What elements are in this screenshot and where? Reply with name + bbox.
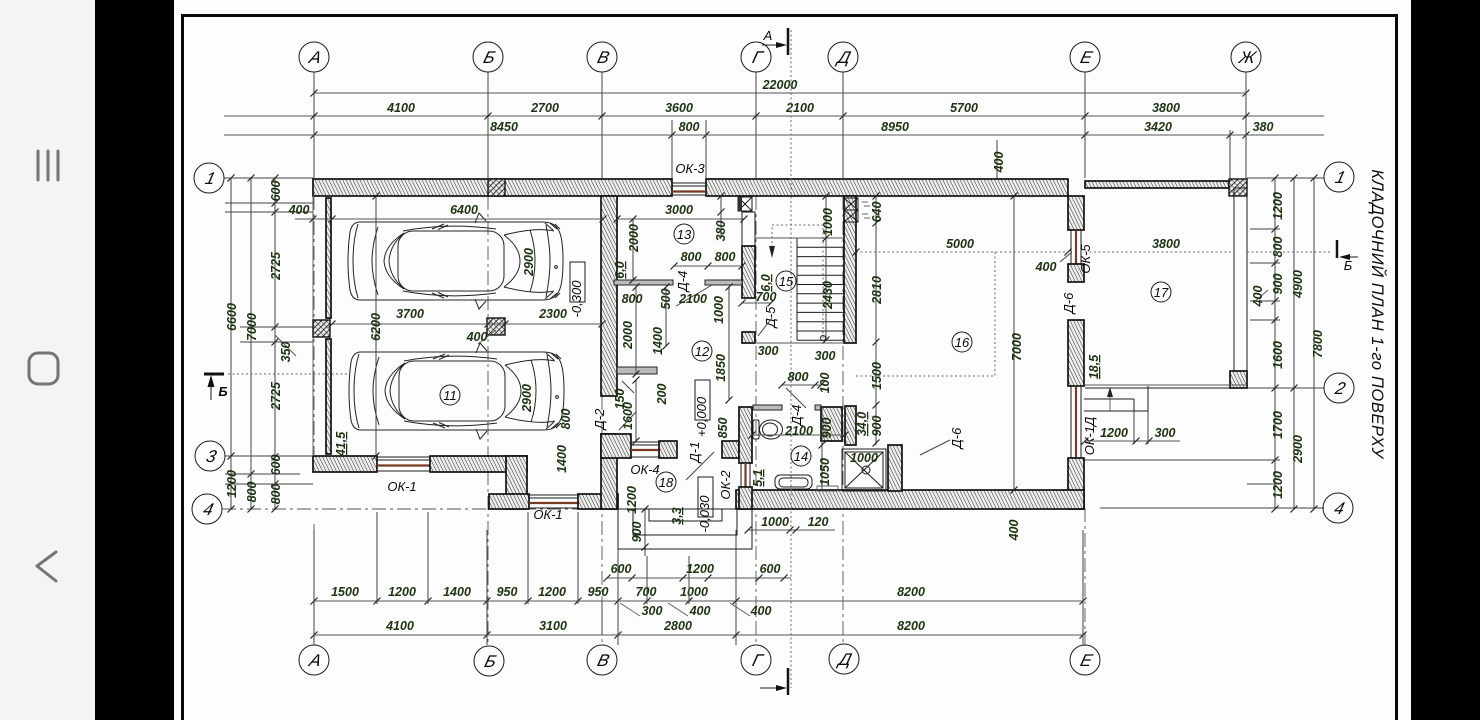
bottom dim row main	[314, 634, 1083, 636]
WC west wall lower	[739, 487, 752, 509]
car 2 in garage	[349, 343, 564, 439]
room 18 circle	[656, 472, 676, 492]
svg-text:2100: 2100	[678, 292, 707, 306]
right dim 400 leader	[1253, 290, 1268, 303]
axis circle B top	[473, 42, 503, 72]
top dim row 2	[224, 134, 1324, 136]
stair east wall	[844, 196, 856, 343]
section A mark bottom	[787, 668, 790, 695]
south wall row4 west	[489, 494, 529, 509]
window OK-1 row3	[377, 456, 430, 458]
svg-text:ОК-2: ОК-2	[718, 470, 733, 500]
svg-text:Д-1: Д-1	[687, 442, 702, 465]
svg-text:7800: 7800	[1311, 330, 1325, 358]
svg-text:800: 800	[679, 120, 700, 134]
garage south wall row3 west	[313, 456, 377, 472]
svg-text:А: А	[763, 28, 773, 43]
axis circle 2 right	[1324, 373, 1354, 403]
svg-text:3700: 3700	[396, 307, 424, 321]
bottom leader dims 300/400/400	[620, 603, 640, 616]
svg-text:6,0: 6,0	[613, 261, 627, 278]
axis circle B bottom	[474, 646, 504, 676]
top extension lines	[313, 88, 315, 111]
svg-text:Б: Б	[1344, 258, 1353, 273]
axis circle 1 right	[1324, 162, 1354, 192]
svg-text:1850: 1850	[714, 354, 728, 382]
elevation box +0.000 room12	[695, 380, 710, 420]
svg-text:Д-2: Д-2	[592, 408, 607, 431]
WC west wall upper	[739, 407, 752, 463]
svg-text:22000: 22000	[762, 78, 798, 92]
svg-text:ОК-5: ОК-5	[1078, 244, 1093, 274]
svg-text:3800: 3800	[1152, 101, 1180, 115]
bottom porch dim row 600/1200/600	[607, 577, 791, 579]
elevation box -0.030	[698, 477, 713, 517]
svg-text:120: 120	[808, 515, 829, 529]
svg-text:300: 300	[1155, 426, 1176, 440]
north wall west segment	[313, 179, 672, 196]
window OK-5 in E wall	[1070, 230, 1072, 264]
stair dim 700 D-5 300	[742, 302, 771, 304]
svg-text:4900: 4900	[1291, 270, 1305, 299]
stair dims 1000 2430	[825, 196, 827, 340]
nav sidebar	[0, 0, 95, 720]
kitchen zone dotted lines	[856, 252, 995, 376]
vent box room13	[738, 197, 752, 211]
window OK-2	[740, 463, 742, 487]
svg-text:1200: 1200	[388, 585, 416, 599]
ext steps dims 1200 300	[1085, 440, 1180, 442]
E wall segment 2	[1068, 264, 1084, 282]
axis A vertical	[313, 72, 315, 178]
svg-text:900: 900	[1271, 274, 1285, 295]
room13 dims 800 800	[674, 265, 742, 267]
svg-text:1200: 1200	[538, 585, 566, 599]
svg-text:-0,030: -0,030	[697, 495, 712, 533]
axis circle E top	[1070, 42, 1100, 72]
E wall segment 3	[1068, 320, 1084, 386]
svg-text:2100: 2100	[785, 101, 814, 115]
svg-text:18,5: 18,5	[1087, 354, 1101, 379]
svg-text:2000: 2000	[627, 224, 641, 253]
svg-text:КЛАДОЧНИЙ ПЛАН 1-го ПОВЕРХУ: КЛАДОЧНИЙ ПЛАН 1-го ПОВЕРХУ	[1368, 169, 1387, 459]
svg-text:8200: 8200	[897, 585, 925, 599]
svg-text:400: 400	[1007, 520, 1021, 542]
bottom extension lines	[376, 512, 378, 604]
svg-text:1500: 1500	[331, 585, 359, 599]
pier at J axis row2	[1230, 371, 1247, 388]
right dim column 7800	[1313, 178, 1315, 509]
svg-text:1200: 1200	[1100, 426, 1128, 440]
svg-text:1000: 1000	[850, 451, 878, 465]
axis circle E bottom	[1070, 645, 1100, 675]
svg-text:6400: 6400	[450, 203, 478, 217]
room13 dim 3000	[617, 218, 744, 220]
toilet	[753, 420, 759, 439]
svg-text:400: 400	[992, 152, 1006, 174]
svg-text:800: 800	[681, 250, 702, 264]
svg-text:400: 400	[750, 604, 772, 618]
E wall segment 1	[1068, 196, 1084, 230]
top dim row axis spans	[224, 115, 1324, 117]
stair lower edge	[755, 342, 844, 344]
row 1 line left	[224, 177, 313, 179]
pier at B axis in north wall	[488, 179, 505, 196]
car 1 in garage	[348, 213, 563, 309]
svg-text:1200: 1200	[686, 562, 714, 576]
svg-text:6600: 6600	[225, 303, 239, 331]
stair west wall mid	[742, 246, 755, 298]
svg-text:Д-4: Д-4	[675, 271, 690, 294]
section B mark right	[1336, 240, 1339, 258]
svg-text:1700: 1700	[1271, 411, 1285, 439]
svg-text:6,0: 6,0	[759, 274, 773, 291]
left dim 350 leader	[275, 335, 296, 356]
svg-text:300: 300	[758, 344, 779, 358]
room18 north wall block east of OK-4	[659, 441, 677, 458]
svg-text:34,0: 34,0	[855, 412, 869, 436]
window OK-1d in E wall	[1070, 386, 1072, 458]
right dim column 4900/2900	[1293, 178, 1295, 509]
svg-text:2725: 2725	[269, 251, 283, 281]
bath dims 900 1050	[821, 407, 823, 490]
svg-text:15: 15	[779, 274, 794, 289]
room 14 circle	[791, 446, 811, 466]
axis circle 4 left	[192, 494, 222, 524]
svg-text:Д-5: Д-5	[763, 306, 778, 329]
pier in garage mid	[487, 318, 505, 335]
door D-6 gap edge lines	[1068, 281, 1084, 283]
svg-text:800: 800	[559, 409, 573, 430]
axis circle J top	[1231, 42, 1261, 72]
svg-text:1400: 1400	[555, 445, 569, 473]
axis V(В) vertical	[601, 72, 603, 178]
svg-text:1600: 1600	[1271, 341, 1285, 369]
garage gate wall edges at A axis	[312, 196, 314, 456]
svg-text:ОК-1: ОК-1	[387, 479, 416, 494]
garage gate leaf upper	[326, 198, 331, 318]
svg-text:16: 16	[955, 335, 970, 350]
svg-text:8200: 8200	[897, 619, 925, 633]
garage 400 pier leader	[478, 330, 496, 344]
svg-text:2900: 2900	[520, 384, 534, 413]
elevation box -0.300 garage	[570, 262, 585, 302]
svg-text:3600: 3600	[665, 101, 693, 115]
svg-text:Д-6: Д-6	[949, 427, 964, 450]
nav icon menu	[38, 151, 58, 180]
bathroom partition west	[753, 405, 782, 410]
room12 dim 1850	[728, 287, 730, 400]
bath dim 2100	[752, 434, 845, 436]
nav icon back	[37, 552, 56, 581]
svg-text:2900: 2900	[1291, 435, 1305, 464]
room16 dim 5000 line	[856, 251, 1068, 253]
svg-text:200: 200	[655, 384, 669, 406]
porch 900 vertical dim	[644, 509, 646, 556]
left dim column 7000/800	[250, 178, 252, 509]
svg-text:2700: 2700	[530, 101, 559, 115]
svg-text:8450: 8450	[490, 120, 518, 134]
section B dotted line right part	[1247, 251, 1330, 253]
svg-text:Д-4: Д-4	[789, 405, 804, 428]
partition room12 niche	[617, 367, 657, 374]
axis B(Б) vertical	[487, 72, 489, 178]
porch steps	[618, 509, 752, 549]
pier at J axis top	[1229, 179, 1247, 196]
svg-text:5,1: 5,1	[751, 469, 765, 486]
svg-text:ОК-3: ОК-3	[675, 161, 705, 176]
svg-text:850: 850	[716, 418, 730, 439]
garage south wall row3 east	[430, 456, 527, 472]
svg-text:4100: 4100	[385, 619, 414, 633]
svg-text:ОК-4: ОК-4	[630, 462, 659, 477]
svg-text:900: 900	[630, 522, 644, 543]
axis circle A top	[299, 42, 329, 72]
left dim column 6600/1200	[230, 178, 232, 509]
svg-text:600: 600	[760, 562, 781, 576]
svg-text:Д-6: Д-6	[1061, 292, 1076, 315]
terrace south edge line	[1085, 384, 1247, 386]
room 11 circle	[440, 385, 460, 405]
row 4 line right	[1100, 507, 1324, 509]
garage vertical dim 6200	[375, 196, 377, 456]
garage mid dim line 3700/400/2300	[332, 323, 602, 325]
svg-text:800: 800	[622, 292, 643, 306]
axis circle D top	[828, 42, 858, 72]
V axis wall lower	[601, 434, 617, 509]
window OK-4 room18 north wall	[631, 441, 659, 443]
vent boxes at D wall	[844, 198, 858, 210]
room12 dim 1400	[665, 287, 667, 346]
svg-text:ОК-1: ОК-1	[533, 507, 562, 522]
block west of WC wall	[722, 441, 739, 458]
svg-text:100: 100	[818, 373, 832, 394]
left dim column 600/2725/350/2725/600/800	[274, 178, 276, 509]
garage gate leaf lower	[326, 339, 331, 454]
V axis wall upper	[601, 196, 617, 396]
svg-text:400: 400	[1035, 260, 1057, 274]
svg-text:11: 11	[443, 388, 457, 403]
row 1 line right	[1247, 177, 1324, 179]
svg-text:380: 380	[1253, 120, 1274, 134]
bathroom partition east	[815, 405, 821, 410]
door D-1 jambs	[676, 441, 678, 458]
room12 dim 150 leader	[622, 381, 634, 393]
window OK-1 row4	[529, 494, 578, 496]
stair west wall lower	[742, 332, 755, 343]
nav icon home	[29, 353, 58, 384]
svg-text:600: 600	[611, 562, 632, 576]
terrace east wall double line	[1234, 188, 1247, 371]
svg-text:900: 900	[820, 418, 834, 439]
south wall main segment rooms 18-16	[736, 490, 1084, 509]
room12 dim 1600	[635, 380, 637, 441]
terrace dim 3800 dotted	[1085, 251, 1234, 253]
svg-text:800: 800	[1271, 237, 1285, 258]
room 15 circle	[776, 271, 796, 291]
svg-text:1000: 1000	[712, 296, 726, 324]
stair west wall upper	[742, 212, 755, 246]
svg-text:41,5: 41,5	[334, 431, 348, 457]
svg-text:600: 600	[269, 181, 283, 202]
stair flight edge	[796, 238, 798, 340]
svg-text:3,3: 3,3	[670, 507, 684, 524]
garage top dim line 400/6400	[295, 218, 603, 220]
svg-text:4100: 4100	[386, 101, 415, 115]
stair walk line	[821, 336, 826, 341]
axis circle 3 left	[195, 441, 225, 471]
svg-text:300: 300	[642, 604, 663, 618]
E wall segment 4 corner	[1068, 458, 1084, 509]
section B mark left	[204, 373, 224, 376]
svg-text:1000: 1000	[821, 208, 835, 236]
svg-text:5000: 5000	[946, 237, 974, 251]
washbasin	[775, 475, 812, 489]
svg-text:800: 800	[269, 484, 283, 505]
axis J(Ж) vertical	[1245, 72, 1247, 180]
400 dim at E top	[996, 140, 998, 178]
svg-text:400: 400	[1251, 286, 1265, 308]
south wall row4 east	[578, 494, 618, 509]
svg-text:5700: 5700	[950, 101, 978, 115]
svg-text:350: 350	[279, 342, 293, 363]
svg-text:400: 400	[466, 330, 488, 344]
svg-text:800: 800	[245, 482, 259, 503]
svg-text:17: 17	[1154, 285, 1169, 300]
svg-text:2000: 2000	[621, 321, 635, 350]
svg-text:2800: 2800	[663, 619, 692, 633]
svg-text:3420: 3420	[1144, 120, 1172, 134]
svg-text:400: 400	[689, 604, 711, 618]
svg-text:14: 14	[794, 449, 808, 464]
south step wall connector	[506, 456, 527, 509]
svg-text:3000: 3000	[665, 203, 693, 217]
svg-text:1400: 1400	[443, 585, 471, 599]
svg-text:1500: 1500	[870, 362, 884, 390]
stair landing line	[755, 237, 844, 239]
axis G(Г) vertical	[755, 72, 757, 178]
exterior steps at E	[1084, 398, 1134, 400]
partition rooms 13-12 west	[614, 280, 673, 285]
axis circle D bottom	[829, 644, 859, 674]
row 2 line right	[1247, 387, 1324, 389]
svg-text:1200: 1200	[1271, 192, 1285, 220]
svg-text:3100: 3100	[539, 619, 567, 633]
section A mark top	[787, 28, 790, 55]
svg-text:2430: 2430	[821, 281, 835, 310]
section A-A dotted line	[790, 30, 792, 688]
svg-text:1000: 1000	[761, 515, 789, 529]
axis E(Е) vertical	[1084, 72, 1086, 178]
svg-text:1200: 1200	[1271, 471, 1285, 499]
svg-text:2300: 2300	[538, 307, 567, 321]
right dim column small	[1274, 178, 1276, 509]
top dim row 22000	[314, 92, 1246, 94]
svg-text:380: 380	[714, 221, 728, 242]
OK-5 400 leader	[1060, 252, 1072, 262]
svg-text:700: 700	[636, 585, 657, 599]
svg-text:2900: 2900	[522, 248, 536, 277]
corner block room18	[601, 434, 631, 458]
room 12 circle	[692, 341, 712, 361]
svg-text:400: 400	[288, 203, 310, 217]
svg-text:1050: 1050	[818, 458, 832, 486]
row 3 line left	[225, 455, 313, 457]
axis circle G bottom	[741, 645, 771, 675]
axis circle 4 right	[1323, 493, 1353, 523]
axis circle V top	[587, 42, 617, 72]
svg-text:950: 950	[497, 585, 518, 599]
room 16 circle	[952, 332, 972, 352]
shower cabin	[842, 449, 886, 491]
bench under wall	[817, 486, 838, 491]
svg-text:150: 150	[613, 389, 627, 410]
svg-text:18: 18	[659, 475, 674, 490]
svg-text:13: 13	[677, 227, 692, 242]
svg-text:640: 640	[870, 202, 884, 223]
room16 dim 7000	[1013, 196, 1015, 490]
svg-text:6200: 6200	[369, 313, 383, 341]
terrace parapet top wall	[1085, 181, 1229, 188]
room16 west wall piece	[888, 445, 902, 491]
room13 dim 2000	[632, 219, 634, 280]
bottom dim row small	[314, 600, 1083, 602]
axis circle V bottom	[587, 645, 617, 675]
svg-text:600: 600	[269, 455, 283, 476]
svg-text:12: 12	[695, 344, 710, 359]
window OK-3 in north wall	[672, 182, 706, 184]
svg-text:1400: 1400	[651, 327, 665, 355]
partition rooms 13-12 east	[705, 280, 742, 285]
svg-text:950: 950	[588, 585, 609, 599]
svg-text:1000: 1000	[680, 585, 708, 599]
stair flight treads	[797, 237, 844, 239]
right column dims 640 2810 1500 900	[875, 196, 877, 445]
svg-text:1200: 1200	[625, 486, 639, 514]
axis circle G top	[741, 42, 771, 72]
svg-text:+0,000: +0,000	[694, 396, 709, 437]
svg-text:2810: 2810	[870, 276, 884, 305]
svg-text:-0,300: -0,300	[569, 280, 584, 318]
svg-text:Б: Б	[218, 384, 227, 399]
axis D(Д) vertical	[842, 72, 844, 178]
room12 dim 2000	[635, 287, 637, 374]
svg-text:3800: 3800	[1152, 237, 1180, 251]
right extension lines	[1250, 228, 1280, 230]
axis circle A bottom	[299, 645, 329, 675]
svg-text:300: 300	[815, 349, 836, 363]
porch top dims 1000/120	[748, 529, 835, 531]
svg-text:800: 800	[715, 250, 736, 264]
north wall east segment	[706, 179, 1068, 196]
axis circle 1 left	[194, 163, 224, 193]
svg-text:2725: 2725	[269, 381, 283, 411]
room 17 circle	[1151, 282, 1171, 302]
pier at A axis mid	[313, 320, 330, 337]
row 4 line	[222, 508, 618, 510]
room 13 circle	[674, 224, 694, 244]
svg-text:8950: 8950	[881, 120, 909, 134]
left row extension lines	[225, 177, 231, 179]
svg-text:900: 900	[870, 416, 884, 437]
room13 dim 380	[720, 196, 722, 238]
svg-text:ОК-1Д: ОК-1Д	[1082, 417, 1097, 456]
bathroom inner block	[821, 407, 842, 441]
svg-text:800: 800	[788, 370, 809, 384]
svg-text:7000: 7000	[1010, 333, 1024, 361]
shower wall	[845, 406, 856, 445]
